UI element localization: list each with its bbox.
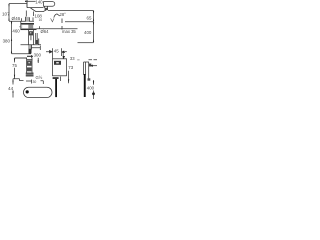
angle arc — [54, 14, 60, 18]
svg-text:Ø46: Ø46 — [12, 16, 21, 21]
drain verticals with 108 — [26, 11, 33, 17]
valve hatch upper — [27, 61, 32, 66]
dim 45 horizontal — [46, 51, 52, 53]
sensor pill — [24, 87, 53, 97]
body hatch blobs — [29, 31, 33, 35]
dim 400 vertical — [93, 22, 95, 43]
pipe tab — [89, 64, 91, 67]
dim diam20 vertical — [93, 80, 95, 99]
spout pill — [44, 2, 55, 7]
label 75 — [12, 62, 18, 67]
small dim arrow mid — [37, 58, 39, 63]
mixer plate band upper — [21, 23, 35, 25]
svg-text:140: 140 — [35, 0, 43, 5]
tick right of probe — [60, 77, 62, 82]
valve hatch lower — [27, 67, 32, 71]
tick above counter — [38, 39, 40, 45]
svg-text:107: 107 — [2, 11, 10, 16]
svg-text:73: 73 — [68, 65, 73, 70]
svg-text:30: 30 — [33, 80, 37, 84]
box right ext arrow — [68, 71, 70, 84]
pipe foot — [88, 78, 91, 80]
lower view top line — [15, 57, 28, 59]
probe cap — [53, 77, 59, 79]
valve body side view — [27, 58, 32, 73]
spout neck — [45, 6, 48, 8]
dim 460-380 vertical — [11, 21, 13, 53]
centerline dashed — [61, 19, 63, 30]
svg-text:G½: G½ — [36, 75, 43, 80]
reference line right long — [48, 10, 94, 12]
dim 65 vertical right — [93, 11, 95, 22]
mixer handle gray — [25, 17, 29, 22]
sensor dot — [26, 90, 29, 93]
body column — [29, 30, 34, 45]
svg-text:+2: +2 — [19, 25, 23, 29]
aerator — [45, 8, 48, 10]
svg-text:380: 380 — [3, 39, 11, 44]
svg-text:33: 33 — [70, 56, 75, 61]
dim 44 vertical — [12, 79, 14, 98]
svg-text:44: 44 — [8, 86, 14, 91]
centerline below pipe — [31, 45, 33, 58]
svg-text:300: 300 — [34, 53, 42, 58]
pipe solid lower — [84, 74, 86, 97]
dim 75 vertical — [14, 58, 16, 79]
basin left edge — [26, 0, 28, 8]
svg-text:28°: 28° — [60, 12, 67, 17]
tick at line left — [39, 26, 41, 29]
dim 107 vertical with arrows — [8, 4, 10, 21]
mixer hatch column — [28, 25, 33, 29]
long wall surface line — [37, 28, 78, 30]
svg-text:400: 400 — [87, 86, 95, 91]
mixer stems above plate — [22, 17, 33, 22]
valve top cap — [27, 56, 33, 60]
control box — [53, 59, 67, 76]
pipe right verticals — [84, 62, 89, 80]
wall line right segment — [65, 21, 94, 23]
svg-text:400: 400 — [84, 30, 92, 35]
mixer left edge — [20, 22, 22, 31]
svg-text:Ø64: Ø64 — [41, 29, 50, 34]
dim 107 line top — [9, 3, 27, 5]
svg-text:45: 45 — [54, 49, 59, 54]
small dim above pill — [20, 80, 32, 84]
dim 103 line — [25, 0, 36, 2]
stream arrow — [51, 18, 54, 21]
pipe below counter — [29, 45, 31, 54]
leader arrow down with 33 — [62, 53, 65, 59]
svg-text:65: 65 — [87, 16, 92, 21]
svg-text:10: 10 — [39, 18, 43, 22]
probe rod — [55, 79, 57, 97]
svg-text:75: 75 — [12, 63, 17, 68]
svg-text:max 35: max 35 — [62, 29, 76, 34]
svg-text:460: 460 — [12, 28, 20, 33]
dim 300 leader — [32, 46, 41, 50]
mixer plate band lower — [21, 28, 37, 30]
basin rim — [27, 7, 44, 9]
floor line — [12, 53, 32, 55]
basin bowl interior — [31, 8, 47, 12]
counter line — [21, 44, 42, 46]
valve base — [26, 73, 34, 77]
corner mark — [41, 81, 44, 84]
reference line 400 bottom — [78, 42, 94, 44]
leader arrows right — [93, 65, 98, 67]
inner unit dark — [54, 61, 61, 65]
dim 44 top line — [13, 79, 20, 81]
side column — [36, 33, 38, 44]
wall line left segment — [9, 20, 34, 22]
pipe right top cap — [84, 61, 90, 63]
